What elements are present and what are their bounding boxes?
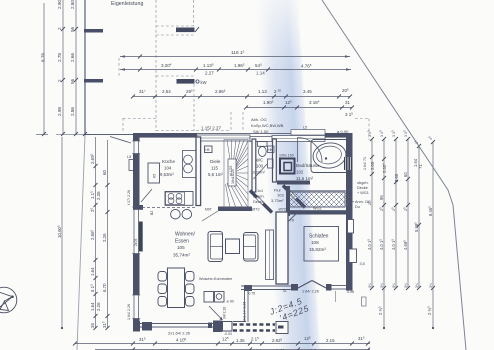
svg-text:6.70: 6.70 xyxy=(102,283,107,292)
diele south wall xyxy=(218,207,252,212)
Eigenleistung wall bar 1 xyxy=(176,28,195,33)
svg-text:ø 90: ø 90 xyxy=(227,300,234,304)
svg-text:1 64/ 2.26: 1 64/ 2.26 xyxy=(302,290,319,294)
bottom dim row 1 xyxy=(75,343,370,345)
svg-text:WG1: WG1 xyxy=(313,207,322,211)
bath door arc xyxy=(298,138,323,163)
wardrobe xyxy=(266,230,274,280)
svg-text:15,82m²: 15,82m² xyxy=(309,247,326,252)
left dim chain line 1 xyxy=(44,0,76,134)
Eigenleistung wall bar 2 xyxy=(177,79,195,84)
right chain ticks top xyxy=(370,137,435,148)
svg-text:102: 102 xyxy=(296,170,304,175)
svg-text:Küche: Küche xyxy=(162,159,175,164)
svg-text:1.15/ 2.27: 1.15/ 2.27 xyxy=(201,126,222,131)
svg-text:KoSp,WC,BW,WB: KoSp,WC,BW,WB xyxy=(251,123,284,128)
svg-text:2.26: 2.26 xyxy=(96,302,101,311)
dashed connector right xyxy=(355,119,369,141)
toilet xyxy=(258,142,268,147)
svg-text:2.86³: 2.86³ xyxy=(215,89,226,94)
svg-text:td 1/25: td 1/25 xyxy=(229,166,233,176)
svg-text:t 17/ 2.26: t 17/ 2.26 xyxy=(127,190,131,205)
sofa left xyxy=(208,232,223,262)
corridor diagonal wall B xyxy=(283,186,305,208)
svg-text:WC: WC xyxy=(256,158,263,163)
north arrow xyxy=(0,287,17,313)
svg-text:SL: SL xyxy=(283,289,287,293)
building right wall xyxy=(346,133,353,290)
kitchen-diele wall xyxy=(196,137,201,206)
east lower glazed wall xyxy=(244,291,246,322)
corridor diagonal wall A xyxy=(250,191,272,213)
right chain ticks bottom xyxy=(370,286,435,290)
sofa right xyxy=(244,233,259,262)
left lower chain labels xyxy=(57,153,107,328)
top window segment wc xyxy=(250,137,272,142)
chairs right xyxy=(186,272,195,282)
right dim chains xyxy=(372,139,433,328)
svg-text:2.26: 2.26 xyxy=(102,233,107,242)
chairs left xyxy=(158,272,167,282)
svg-text:115: 115 xyxy=(211,166,219,171)
WC side box xyxy=(268,159,274,168)
svg-text:2x1.17/ 2.26: 2x1.17/ 2.26 xyxy=(243,302,247,321)
svg-text:BZ: BZ xyxy=(150,211,154,215)
svg-text:2.80: 2.80 xyxy=(70,0,75,9)
band top fade xyxy=(235,0,335,70)
svg-text:Ø72: Ø72 xyxy=(279,207,287,212)
bath window sill box xyxy=(291,130,325,136)
svg-text:100: 100 xyxy=(256,164,264,169)
svg-text:1.64/ 2.26: 1.64/ 2.26 xyxy=(127,304,131,320)
kommode boxes xyxy=(204,292,214,303)
dark eigenleistung wall segment beside living window xyxy=(139,222,143,252)
WC door swing xyxy=(254,164,268,179)
svg-text:104: 104 xyxy=(164,166,172,171)
sauna west wall xyxy=(286,186,290,216)
svg-text:2.54: 2.54 xyxy=(162,89,171,94)
building top wall solid left xyxy=(133,133,197,138)
chevron door xyxy=(298,281,312,289)
svg-text:105: 105 xyxy=(177,245,185,250)
kitchen south stub wall xyxy=(133,205,143,210)
WC room west wall xyxy=(252,139,256,192)
svg-text:1.35: 1.35 xyxy=(236,338,245,343)
svg-text:11,6 1m²: 11,6 1m² xyxy=(296,176,314,181)
building left wall xyxy=(133,133,140,332)
kitchen sink counter xyxy=(183,151,197,178)
building top wall base line xyxy=(133,133,352,135)
svg-text:Decke: Decke xyxy=(253,200,264,204)
svg-text:2.66: 2.66 xyxy=(70,53,75,62)
radiator right wall lower xyxy=(349,249,357,263)
top dim line A (116 15) xyxy=(120,56,350,58)
svg-text:3,5: 3,5 xyxy=(360,262,365,266)
svg-text:1.64: 1.64 xyxy=(90,267,95,276)
svg-text:SA/ 1.50: SA/ 1.50 xyxy=(253,129,269,134)
svg-text:56: 56 xyxy=(70,78,75,84)
right chain labels xyxy=(367,130,433,144)
svg-text:31⁷: 31⁷ xyxy=(139,89,146,94)
bar stools xyxy=(171,209,181,219)
svg-text:1.13: 1.13 xyxy=(258,89,267,94)
svg-text:Diele: Diele xyxy=(210,159,221,164)
svg-text:0-98: 0-98 xyxy=(347,290,354,294)
svg-text:2.05: 2.05 xyxy=(370,161,375,170)
bed xyxy=(304,227,339,262)
diagonal property line xyxy=(322,0,466,350)
svg-text:2.98: 2.98 xyxy=(57,107,62,116)
bedroom bottom wall xyxy=(244,285,252,291)
bathtub xyxy=(311,140,348,173)
wall stub bar upper xyxy=(84,29,103,33)
svg-text:kW: kW xyxy=(201,80,207,85)
svg-text:3.45: 3.45 xyxy=(303,89,312,94)
HK WC xyxy=(268,146,275,153)
svg-text:obgeh.: obgeh. xyxy=(357,181,369,185)
top window diele xyxy=(197,135,250,141)
bottom dim row 2 (clipped) xyxy=(95,349,370,350)
svg-text:L5: L5 xyxy=(127,155,131,159)
dashed carport outline top xyxy=(119,0,243,133)
left neighbour boundary wall xyxy=(84,0,86,135)
svg-text:9,53m²: 9,53m² xyxy=(160,172,174,177)
svg-text:Wosche-Kommoten: Wosche-Kommoten xyxy=(199,277,232,281)
leader arrow to corner xyxy=(209,306,222,320)
svg-text:abgeh.: abgeh. xyxy=(253,195,265,199)
svg-text:2.90: 2.90 xyxy=(57,0,62,9)
svg-text:2.78: 2.78 xyxy=(57,53,62,62)
svg-text:Bad/Sauna: Bad/Sauna xyxy=(296,163,319,168)
dining table xyxy=(168,268,185,308)
svg-text:+ WG1: + WG1 xyxy=(357,191,369,195)
svg-text:95: 95 xyxy=(379,195,384,200)
svg-text:Wohnen/: Wohnen/ xyxy=(175,232,196,238)
svg-text:116 15: 116 15 xyxy=(231,50,245,56)
bedroom door arc xyxy=(286,213,298,224)
left chain ticks xyxy=(36,27,90,136)
svg-text:3,73m²: 3,73m² xyxy=(271,198,284,203)
svg-text:2.35: 2.35 xyxy=(96,191,101,200)
svg-text:Abh. OG: Abh. OG xyxy=(251,117,267,122)
svg-text:70: 70 xyxy=(290,218,295,223)
shower xyxy=(280,159,295,174)
left lower dim chains xyxy=(62,137,108,328)
top dim row C xyxy=(133,96,350,98)
WC room east wall xyxy=(273,139,277,182)
coffee table xyxy=(226,239,240,254)
radiator HK kitchen xyxy=(205,146,213,153)
svg-text:54³: 54³ xyxy=(255,63,262,68)
bath south wall xyxy=(277,181,310,185)
svg-text:56: 56 xyxy=(70,26,75,32)
left wall window living tall xyxy=(132,207,140,254)
corner line to building xyxy=(85,134,134,136)
building top wall solid right xyxy=(325,133,352,138)
sink circles xyxy=(184,155,193,164)
right chain ticks middle xyxy=(370,155,421,227)
svg-text:1.64/ 71: 1.64/ 71 xyxy=(363,157,367,170)
bottom terrace wall with posts xyxy=(133,321,140,332)
svg-text:3,10m²: 3,10m² xyxy=(253,170,266,175)
top dim line B xyxy=(120,69,351,71)
svg-text:2: 2 xyxy=(57,79,62,82)
blue scan fold band xyxy=(254,0,323,350)
top window bath xyxy=(272,136,325,142)
svg-text:31: 31 xyxy=(345,100,351,105)
svg-text:Ø72: Ø72 xyxy=(252,207,260,212)
left wall window kitchen xyxy=(132,141,140,154)
svg-text:Eigenleistung: Eigenleistung xyxy=(111,1,143,7)
wall stub bar lower xyxy=(84,79,103,83)
svg-text:100x 100: 100x 100 xyxy=(279,154,294,158)
svg-text:60: 60 xyxy=(403,172,408,177)
svg-text:L5: L5 xyxy=(303,126,307,130)
svg-text:Decke: Decke xyxy=(357,186,368,190)
living-bedroom wall xyxy=(276,212,288,284)
svg-text:35,74m²: 35,74m² xyxy=(173,253,190,258)
svg-text:5,6 1m²: 5,6 1m² xyxy=(208,172,223,177)
kitchen counter peninsula with stove xyxy=(165,192,193,206)
handwriting pencil xyxy=(267,296,310,324)
svg-text:3.60: 3.60 xyxy=(394,173,399,182)
left chain labels xyxy=(41,0,76,116)
svg-text:Du: Du xyxy=(355,205,360,209)
svg-text:M9T: M9T xyxy=(205,208,212,212)
top dim row D xyxy=(246,107,352,109)
left wall window lower xyxy=(132,295,140,319)
counter dashed overhang xyxy=(142,207,196,209)
svg-text:103: 103 xyxy=(277,193,284,198)
bedroom top wall xyxy=(288,210,351,214)
stairs xyxy=(224,140,248,209)
dashed overhang strip bottom xyxy=(233,323,275,325)
svg-text:34/ 2.26: 34/ 2.26 xyxy=(223,307,227,319)
svg-text:1.14: 1.14 xyxy=(256,71,265,76)
svg-text:2.15: 2.15 xyxy=(326,338,335,343)
svg-text:1.64: 1.64 xyxy=(90,302,95,311)
stair newel label box xyxy=(228,159,236,186)
svg-text:36: 36 xyxy=(90,323,95,328)
kitchen fridge box xyxy=(148,163,160,183)
svg-text:K5: K5 xyxy=(153,174,157,178)
svg-text:60: 60 xyxy=(102,170,107,175)
sauna heater xyxy=(344,157,352,170)
svg-text:0.75: 0.75 xyxy=(249,291,256,295)
svg-text:2x05: 2x05 xyxy=(134,239,138,246)
radiator right wall upper xyxy=(348,220,354,234)
sauna hatched area xyxy=(288,190,351,192)
gate swing xyxy=(110,137,131,144)
svg-text:1x1: 1x1 xyxy=(257,189,263,193)
svg-text:71: 71 xyxy=(418,164,423,169)
svg-text:8.78: 8.78 xyxy=(41,53,46,62)
left boundary slanted line xyxy=(77,135,85,350)
svg-text:2.86: 2.86 xyxy=(70,107,75,116)
svg-text:2x1.64/ 2.26: 2x1.64/ 2.26 xyxy=(168,331,191,336)
svg-text:2.27: 2.27 xyxy=(205,71,214,76)
extension line SE xyxy=(335,291,337,302)
svg-text:ø 0.90: ø 0.90 xyxy=(337,129,349,134)
svg-text:108: 108 xyxy=(311,240,319,245)
svg-text:Essen: Essen xyxy=(175,239,189,245)
svg-text:Schlafen: Schlafen xyxy=(309,234,329,240)
svg-text:2: 2 xyxy=(57,27,62,30)
